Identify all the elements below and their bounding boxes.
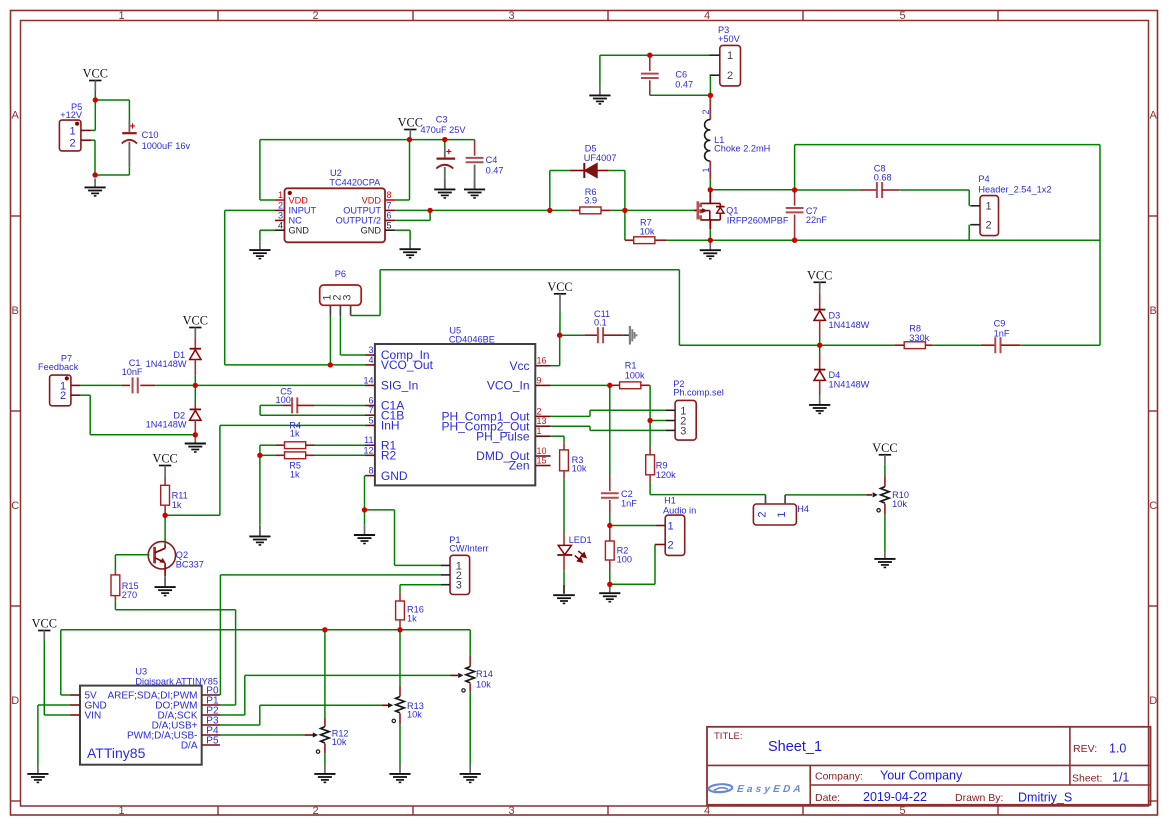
svg-text:1nF: 1nF [994,329,1010,339]
svg-text:A: A [1150,110,1158,122]
svg-text:INPUT: INPUT [289,206,317,216]
svg-text:3: 3 [680,425,686,437]
svg-text:Audio in: Audio in [663,505,696,515]
svg-text:8: 8 [387,190,392,200]
svg-text:Feedback: Feedback [38,362,79,372]
svg-text:11: 11 [364,435,373,445]
svg-text:CD4046BE: CD4046BE [449,335,495,345]
svg-text:6: 6 [387,211,392,221]
svg-text:1: 1 [69,126,75,138]
svg-text:VCC: VCC [32,617,57,631]
svg-text:3: 3 [456,580,462,592]
svg-text:C10: C10 [142,130,159,140]
svg-text:4: 4 [278,220,283,230]
svg-text:D: D [1149,695,1157,707]
svg-text:4: 4 [704,10,710,22]
svg-text:VCO_In: VCO_In [487,379,530,393]
svg-text:3: 3 [368,345,373,355]
svg-text:VCC: VCC [152,452,177,466]
svg-text:+: + [446,147,452,158]
svg-text:Choke 2.2mH: Choke 2.2mH [714,144,770,154]
svg-text:P5: P5 [206,735,219,746]
svg-text:5: 5 [387,220,392,230]
svg-text:C: C [1149,500,1157,512]
svg-text:5: 5 [368,415,373,425]
svg-text:5: 5 [899,805,905,817]
svg-text:0.1: 0.1 [594,317,607,327]
svg-text:D3: D3 [829,310,841,320]
svg-text:1: 1 [985,201,991,213]
svg-text:P4: P4 [978,174,989,184]
svg-text:P6: P6 [335,269,346,279]
svg-text:10: 10 [537,446,547,456]
svg-text:InH: InH [381,419,400,433]
svg-text:Drawn By:: Drawn By: [955,792,1003,804]
svg-text:OUTPUT: OUTPUT [343,206,381,216]
svg-text:C9: C9 [994,319,1006,329]
svg-text:R14: R14 [476,669,493,679]
svg-text:GND: GND [381,469,408,483]
svg-text:270: 270 [122,590,137,600]
svg-text:C3: C3 [436,115,448,125]
svg-text:Vcc: Vcc [509,359,529,373]
svg-text:10k: 10k [332,737,347,747]
svg-text:REV:: REV: [1073,743,1097,755]
svg-text:VCC: VCC [398,116,423,130]
svg-text:BC337: BC337 [176,559,204,569]
svg-text:100k: 100k [625,370,645,380]
svg-text:2: 2 [667,539,673,551]
svg-text:H1: H1 [664,496,676,506]
svg-text:EasyEDA: EasyEDA [736,784,804,795]
svg-text:1k: 1k [172,500,182,510]
svg-text:+12V: +12V [60,110,83,120]
svg-text:2: 2 [757,511,769,517]
svg-text:1: 1 [667,520,673,532]
svg-text:1000uF 16v: 1000uF 16v [142,141,191,151]
svg-text:2: 2 [60,390,66,402]
svg-text:3: 3 [508,805,514,817]
svg-text:1: 1 [701,167,711,172]
svg-text:0.68: 0.68 [874,173,892,183]
svg-text:C6: C6 [675,70,687,80]
svg-text:Q1: Q1 [726,206,738,216]
svg-text:2: 2 [278,201,283,211]
svg-text:Zen: Zen [509,459,530,473]
svg-text:1N4148W: 1N4148W [829,320,870,330]
svg-text:R2: R2 [381,449,397,463]
svg-text:7: 7 [387,201,392,211]
svg-text:Dmitriy_S: Dmitriy_S [1018,791,1072,805]
svg-text:1k: 1k [407,613,417,623]
svg-text:NC: NC [289,216,303,226]
svg-text:VCC: VCC [83,67,108,81]
svg-text:2: 2 [985,220,991,232]
svg-text:6: 6 [368,396,373,406]
svg-text:UF4007: UF4007 [584,153,617,163]
svg-text:0.47: 0.47 [675,80,693,90]
svg-text:VIN: VIN [85,711,102,722]
svg-text:B: B [12,305,19,317]
svg-text:3: 3 [278,211,283,221]
svg-text:2: 2 [312,805,318,817]
svg-text:3: 3 [342,294,354,300]
svg-text:14: 14 [363,375,373,385]
svg-text:LED1: LED1 [569,535,592,545]
svg-text:A: A [12,110,20,122]
svg-text:VCC: VCC [547,280,572,294]
svg-text:1: 1 [776,511,788,517]
svg-text:U3: U3 [135,667,147,677]
svg-text:10k: 10k [892,499,907,509]
svg-text:1/1: 1/1 [1112,771,1129,785]
svg-text:SIG_In: SIG_In [381,379,418,393]
svg-text:2: 2 [727,70,733,82]
svg-text:1k: 1k [290,428,300,438]
svg-text:1N4148W: 1N4148W [146,359,187,369]
svg-text:15: 15 [537,456,547,466]
svg-text:1: 1 [118,10,124,22]
svg-text:4: 4 [704,805,710,817]
svg-text:VDD: VDD [362,195,382,205]
svg-text:10k: 10k [572,464,587,474]
svg-text:R11: R11 [172,491,188,501]
svg-text:100: 100 [617,555,632,565]
svg-text:+50V: +50V [718,34,741,44]
svg-text:2: 2 [701,109,711,114]
svg-text:C: C [11,500,19,512]
svg-text:5: 5 [899,10,905,22]
svg-text:8: 8 [368,466,373,476]
svg-text:3: 3 [508,10,514,22]
svg-text:16: 16 [537,356,547,366]
svg-text:Sheet:: Sheet: [1072,773,1102,785]
svg-text:1N4148W: 1N4148W [146,420,187,430]
svg-text:100: 100 [276,395,291,405]
svg-text:ATTiny85: ATTiny85 [87,745,146,761]
svg-text:Your Company: Your Company [880,769,963,783]
svg-text:Header_2.54_1x2: Header_2.54_1x2 [978,184,1051,194]
svg-text:2019-04-22: 2019-04-22 [863,790,927,804]
svg-text:VCO_Out: VCO_Out [381,358,434,372]
svg-text:1: 1 [727,50,733,62]
svg-text:TC4420CPA: TC4420CPA [329,178,381,188]
svg-text:1.0: 1.0 [1109,742,1126,756]
svg-text:9: 9 [537,375,542,385]
svg-text:Company:: Company: [815,771,863,783]
svg-text:VCC: VCC [872,441,897,455]
svg-text:U2: U2 [330,168,342,178]
svg-text:1: 1 [537,426,542,436]
svg-text:R1: R1 [625,361,637,371]
svg-text:VCC: VCC [183,314,208,328]
svg-text:4: 4 [368,355,373,365]
svg-text:2: 2 [537,406,542,416]
svg-text:TITLE:: TITLE: [714,731,743,742]
svg-text:13: 13 [537,416,547,426]
svg-text:1: 1 [118,805,124,817]
svg-text:10k: 10k [476,679,491,689]
svg-text:2: 2 [312,10,318,22]
svg-text:VDD: VDD [289,195,309,205]
svg-text:2: 2 [69,137,75,149]
svg-text:H4: H4 [797,504,809,514]
svg-text:1N4148W: 1N4148W [829,380,870,390]
svg-text:470uF 25V: 470uF 25V [421,125,467,135]
svg-text:D/A: D/A [181,741,198,752]
svg-text:CW/Interr: CW/Interr [449,544,488,554]
svg-text:1: 1 [278,190,283,200]
svg-text:1k: 1k [290,469,300,479]
svg-text:0.47: 0.47 [486,166,504,176]
svg-text:IRFP260MPBF: IRFP260MPBF [727,215,789,225]
svg-text:Ph.comp.sel: Ph.comp.sel [673,387,724,397]
svg-text:1nF: 1nF [621,499,637,509]
svg-text:120k: 120k [656,470,676,480]
svg-text:D: D [11,695,19,707]
svg-text:+: + [130,122,136,133]
svg-text:GND: GND [289,226,310,236]
svg-text:12: 12 [363,445,373,455]
svg-text:10k: 10k [407,709,422,719]
svg-text:C2: C2 [621,489,633,499]
svg-text:R9: R9 [656,460,668,470]
svg-text:OUTPUT/2: OUTPUT/2 [336,216,381,226]
svg-text:C4: C4 [486,155,498,165]
svg-text:B: B [1150,305,1157,317]
svg-text:VCC: VCC [807,269,832,283]
svg-text:Date:: Date: [815,792,840,804]
svg-text:GND: GND [361,226,382,236]
svg-text:PH_Pulse: PH_Pulse [476,429,530,443]
svg-text:Sheet_1: Sheet_1 [768,739,822,755]
svg-text:D5: D5 [585,144,597,154]
svg-text:10k: 10k [640,227,655,237]
svg-text:22nF: 22nF [806,215,827,225]
svg-text:3.9: 3.9 [584,196,597,206]
svg-text:330k: 330k [909,333,929,343]
svg-text:7: 7 [368,405,373,415]
svg-text:10nF: 10nF [122,367,143,377]
svg-text:R8: R8 [909,323,921,333]
